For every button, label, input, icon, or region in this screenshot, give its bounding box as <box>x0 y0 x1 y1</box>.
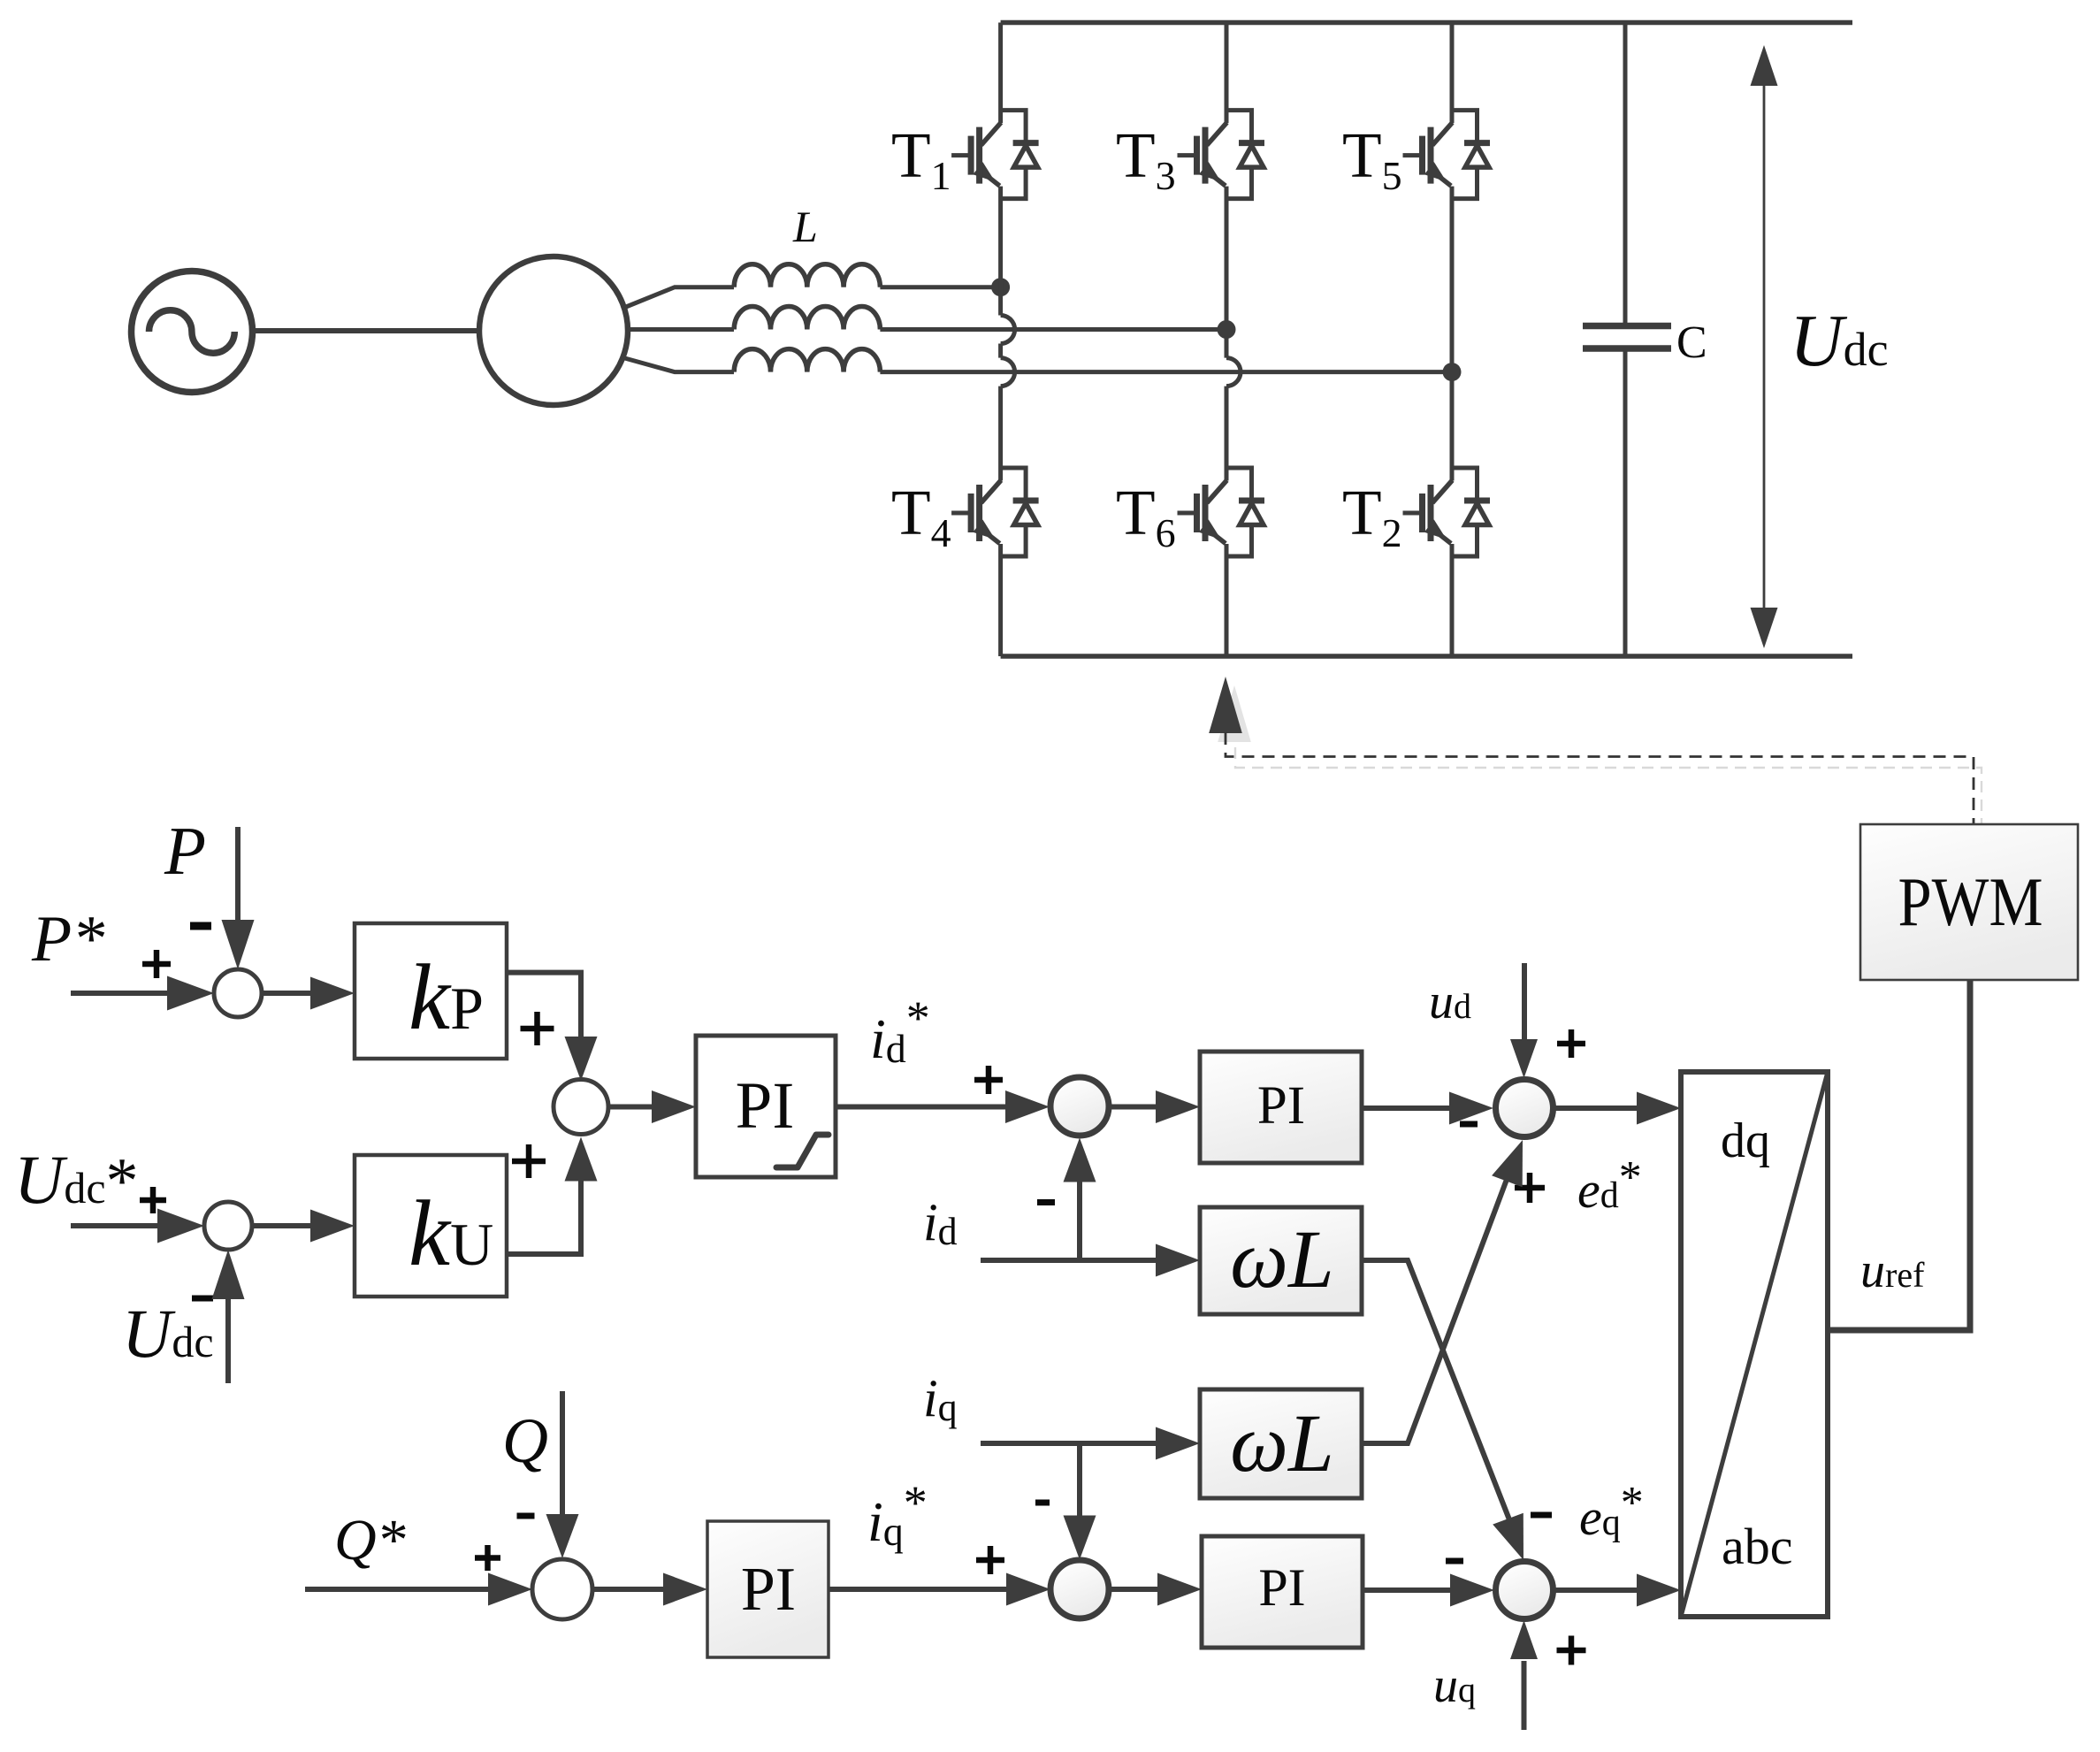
svg-text:L: L <box>792 202 818 251</box>
svg-text:Q*: Q* <box>334 1508 406 1572</box>
svg-text:PI: PI <box>736 1069 795 1143</box>
svg-text:dq: dq <box>1721 1113 1770 1168</box>
svg-text:PI: PI <box>1257 1076 1305 1136</box>
svg-text:Q: Q <box>502 1405 548 1476</box>
svg-text:PWM: PWM <box>1898 863 2043 940</box>
svg-text:ωL: ωL <box>1230 1398 1333 1489</box>
svg-text:PI: PI <box>741 1556 796 1624</box>
svg-text:abc: abc <box>1722 1518 1793 1575</box>
svg-text:P: P <box>164 813 206 889</box>
svg-text:ωL: ωL <box>1230 1214 1333 1305</box>
svg-text:P*: P* <box>31 903 104 975</box>
svg-text:C: C <box>1676 318 1707 368</box>
svg-text:PI: PI <box>1258 1558 1305 1617</box>
